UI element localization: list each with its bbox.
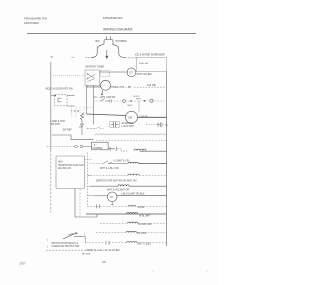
svg-text:ICE & WATER DISPENSER: ICE & WATER DISPENSER — [135, 53, 165, 56]
auxiliary contact box — [101, 71, 110, 77]
wire H2 to bus dashed — [139, 174, 166, 176]
damper contact circle — [80, 145, 83, 148]
svg-text:DISP SW: DISP SW — [139, 63, 149, 65]
dashed drop bus wire — [87, 153, 89, 208]
svg-text:WIRING DIAGRAM: WIRING DIAGRAM — [103, 28, 133, 32]
start relay stub — [74, 235, 82, 237]
contact circle row101 c — [150, 99, 153, 102]
wire contact to damper box — [83, 145, 92, 147]
svg-text:BL WR L-BK: BL WR L-BK — [139, 224, 152, 226]
wire dotted drop W — [83, 107, 85, 118]
capacitor C4 — [106, 241, 109, 245]
wire stub dashed 107 — [87, 107, 94, 109]
svg-text:SW DEF: SW DEF — [63, 129, 73, 132]
svg-text:B-GY/: B-GY/ — [134, 96, 140, 98]
wire row jog — [52, 135, 94, 140]
diode D1 — [79, 120, 84, 127]
wire compressor row — [87, 114, 127, 116]
wire plug left lead — [91, 44, 104, 58]
svg-text:WL & BK: WL & BK — [137, 233, 147, 235]
wire dotted drop B — [79, 107, 81, 114]
svg-text:A ~: A ~ — [94, 143, 98, 146]
wire box2 outline — [75, 189, 97, 218]
junction dot row101 — [130, 100, 132, 102]
speck right b — [207, 271, 208, 272]
solenoid coil L2 — [128, 162, 138, 163]
svg-text:OVERLOAD PROTECTOR: OVERLOAD PROTECTOR — [52, 245, 80, 248]
coil L6 row206 — [128, 205, 136, 206]
svg-text:ADA BD 24V: ADA BD 24V — [58, 167, 72, 170]
dispenser assembly box U1 — [136, 58, 166, 72]
timer motor arrow — [101, 91, 103, 96]
title rule — [27, 33, 196, 35]
resistor R1 — [81, 113, 84, 120]
tick mark node a — [51, 56, 54, 58]
wire damper feed dashed — [47, 145, 75, 147]
svg-text:MOTOR START RELAY &: MOTOR START RELAY & — [52, 242, 79, 245]
svg-text:TEMP/DOOR AJAR ALM: TEMP/DOOR AJAR ALM — [58, 164, 84, 167]
wire compressor to bus — [138, 116, 167, 118]
start relay arrow — [69, 232, 78, 234]
svg-text:WHT: WHT — [128, 105, 134, 107]
coil L7 row214 — [127, 213, 138, 214]
power plug P1 — [104, 36, 113, 44]
junction dot row101 b — [144, 100, 146, 102]
heater element sawtooth row — [95, 134, 167, 135]
condenser fan coil L5 — [127, 241, 137, 242]
svg-text:WHT-YEL BLK: WHT-YEL BLK — [137, 73, 153, 76]
svg-text:WHT & YEL WHT-OR: WHT & YEL WHT-OR — [107, 189, 130, 191]
solenoid coil L4 — [126, 231, 136, 232]
defrost thermostat DT — [127, 68, 136, 77]
svg-text:(: ( — [47, 245, 48, 249]
compressor motor C1 — [126, 111, 138, 123]
connector box C inner — [58, 98, 61, 102]
svg-text:WHT & L-BLU OR: WHT & L-BLU OR — [100, 168, 119, 170]
wire motor right stub — [111, 86, 114, 88]
wire right lead to dispenser — [125, 57, 136, 59]
wire row163 lead — [90, 163, 103, 165]
svg-text:26: 26 — [102, 260, 106, 264]
heater coil H3 — [118, 185, 129, 186]
wire row233 dashed — [96, 232, 126, 234]
start relay switch Q1 — [63, 234, 74, 239]
svg-text:DEF. HTR ― BK: DEF. HTR ― BK — [114, 86, 132, 89]
svg-text:24V /6B: 24V /6B — [147, 84, 156, 87]
dashed drop under box right — [79, 189, 81, 217]
svg-text:DAMPER: DAMPER — [93, 147, 103, 150]
wire diode to bus dashed — [146, 124, 158, 126]
diode D3 — [110, 147, 116, 151]
svg-text:BK-WHT: BK-WHT — [82, 253, 91, 255]
timer motor M1 — [101, 80, 111, 90]
wire timer to DT circle — [100, 71, 128, 73]
defrost heater coil H2 — [128, 174, 139, 175]
svg-text:GN-BL: GN-BL — [138, 207, 146, 209]
run capacitor RC — [111, 122, 119, 127]
speck right a — [153, 271, 154, 272]
contact circle row101 d — [109, 100, 111, 102]
connector box C — [55, 95, 67, 106]
svg-text:SOLENOID: SOLENOID — [122, 123, 134, 125]
wire jog row101 drop — [138, 101, 140, 111]
defrost timer box TM1 — [85, 70, 100, 86]
wire row243 mid dashed — [109, 242, 127, 244]
wire row196 lead — [94, 195, 108, 197]
fan motor M2 — [107, 192, 117, 202]
wire timer box drop — [87, 86, 100, 87]
svg-text:M: M — [110, 195, 113, 199]
left bus wire — [50, 62, 52, 150]
svg-text:DR WHT: DR WHT — [51, 123, 61, 126]
svg-text:(: ( — [47, 238, 48, 242]
wire dotted drop Y — [71, 107, 73, 118]
wire M2 to bus — [117, 195, 167, 197]
svg-text:BLK: BLK — [96, 40, 101, 43]
defrost timer switch contacts — [87, 73, 95, 81]
diode D2 — [158, 123, 163, 127]
start relay bracket — [82, 236, 85, 243]
wire bottom dashed left — [46, 249, 95, 251]
svg-text:WHT/BRN: WHT/BRN — [116, 40, 127, 43]
tick mark node b — [72, 56, 75, 58]
svg-text:L-SOL WHT: L-SOL WHT — [122, 126, 135, 128]
svg-text:WHT: WHT — [136, 99, 142, 101]
svg-text:W-BL WHT: W-BL WHT — [139, 215, 151, 217]
switch S2 row163 — [103, 161, 112, 164]
wire dotted drop R — [75, 107, 77, 118]
svg-text:DEFROST HTR WHT-PN OR-WHT 2: DEFROST HTR WHT-PN OR-WHT 24V — [96, 180, 137, 182]
svg-text:~: ~ — [103, 84, 105, 88]
svg-text:ADA: ADA — [58, 160, 63, 163]
run capacitor box — [110, 121, 119, 127]
svg-text:FRS26ZRGD4: FRS26ZRGD4 — [103, 16, 123, 20]
svg-text:DT: DT — [129, 71, 133, 75]
fan motor stem — [111, 202, 114, 205]
wire connector right stub — [67, 95, 74, 97]
svg-text:FRIGIDAIRE P/N: FRIGIDAIRE P/N — [24, 17, 47, 21]
guard switch row101 — [100, 98, 110, 101]
wire row 101 dashed — [94, 100, 167, 102]
contact circle row101 a — [123, 100, 126, 103]
wire coil H1 to bus — [140, 150, 167, 152]
wire row141 dashed — [96, 140, 167, 142]
wire L5 to bus dashed — [137, 242, 167, 244]
solenoid coil L3 — [128, 222, 138, 223]
wire curl row — [87, 127, 104, 128]
capacitor C2 — [97, 204, 100, 208]
dashed drop stub 175 — [88, 174, 91, 176]
svg-text:5707: 5707 — [20, 262, 26, 266]
svg-text:NOTE: ALL GN L-GN 24 AC: NOTE: ALL GN L-GN 24 AC BLK — [87, 249, 121, 252]
wire row243 dashed — [86, 242, 104, 244]
svg-text:L-BLU & WHT PN-BLK: L-BLU & WHT PN-BLK — [121, 194, 145, 196]
wire left lead dashes — [86, 57, 92, 59]
svg-text:L-S WHT & YEL: L-S WHT & YEL — [113, 160, 130, 162]
heater coil H1 — [134, 149, 146, 151]
wire damper out — [108, 148, 110, 150]
wire dotted feeder — [51, 75, 85, 77]
svg-text:DEFROST TIMER: DEFROST TIMER — [86, 66, 105, 68]
svg-text:218470802: 218470802 — [24, 21, 39, 25]
ground arrow — [106, 50, 108, 58]
dashed drop stub 186 — [88, 185, 91, 187]
svg-text:CM: CM — [128, 116, 132, 120]
svg-text:MOLD & DOOR HTR SW: MOLD & DOOR HTR SW — [46, 88, 74, 91]
wire row214 — [86, 213, 167, 215]
wire to connector box — [51, 95, 55, 97]
wire bus junction tick — [165, 123, 168, 126]
wire L3 to bus dashed — [138, 222, 167, 224]
svg-text:YRB: YRB — [71, 110, 81, 113]
svg-text:(: ( — [84, 232, 85, 236]
wire 24V dashed — [134, 86, 167, 88]
control board box ADA — [56, 156, 85, 189]
svg-text:MOT C & BK: MOT C & BK — [138, 243, 152, 245]
wire row186 lead — [90, 185, 118, 187]
wire damper jog — [117, 149, 128, 151]
wire row224 dashed — [100, 222, 128, 224]
wire row176 dashed — [88, 174, 129, 176]
damper motor box — [92, 142, 109, 150]
wire row206 dashed — [88, 205, 167, 207]
wire L4 to bus dashed — [136, 232, 166, 234]
wire box right stub — [85, 159, 92, 161]
wire L2 to bus — [138, 163, 166, 165]
svg-text:CPR BK: CPR BK — [140, 116, 149, 118]
wire diode drop — [81, 127, 83, 135]
wire connector bottom stub — [67, 105, 74, 107]
dashed drop stub 196 — [88, 195, 95, 197]
timer drop left — [86, 86, 88, 115]
header left model text — [24, 17, 47, 26]
wire plug right lead — [112, 44, 125, 58]
right bus wire — [166, 72, 168, 247]
wire H3 to bus — [129, 185, 166, 187]
timer drop right — [93, 86, 95, 125]
damper thermostat hook — [74, 145, 78, 148]
wire row163 mid — [108, 163, 128, 165]
